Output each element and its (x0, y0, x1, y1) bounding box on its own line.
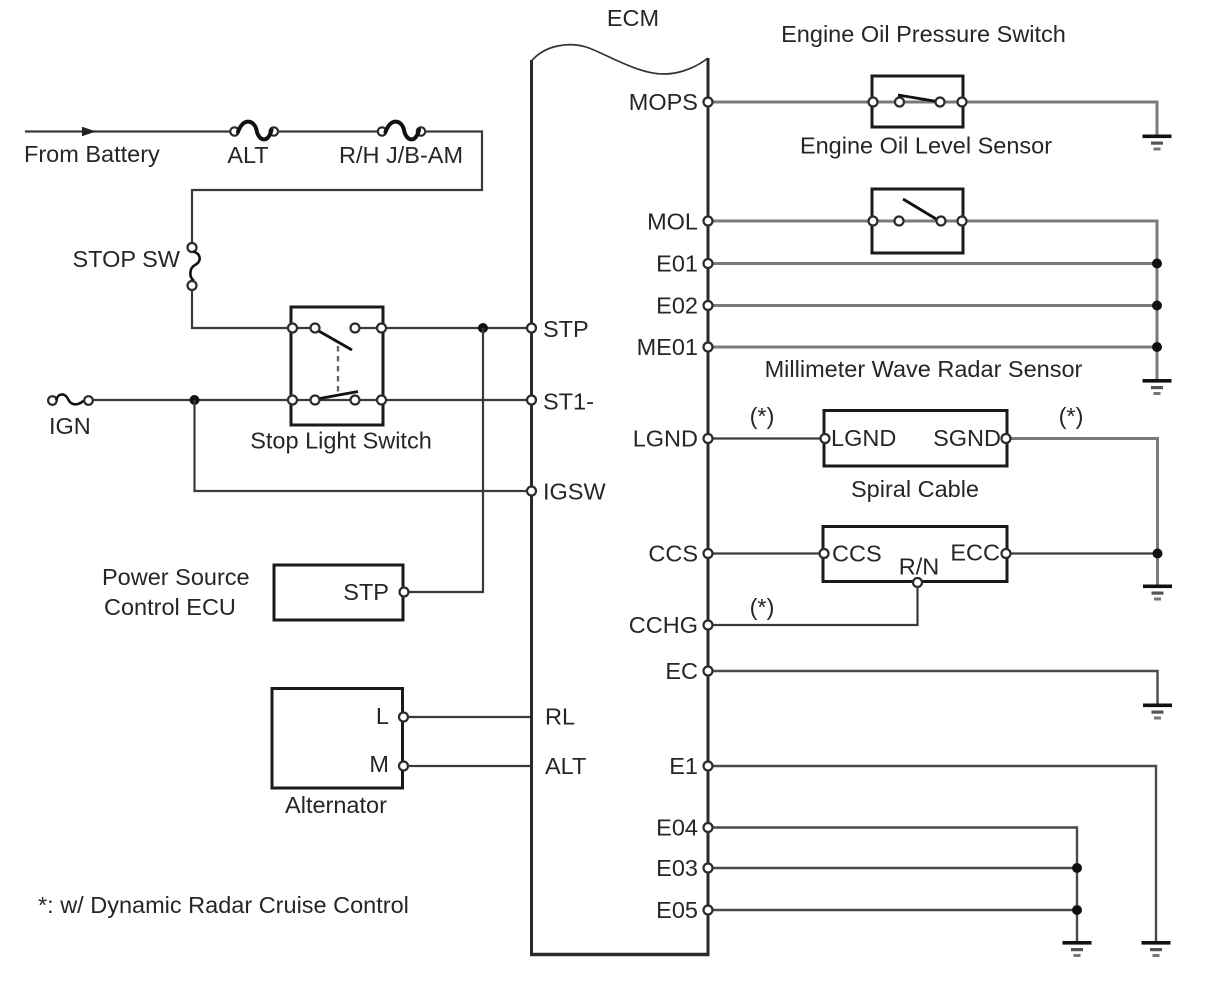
pin LGND (704, 434, 713, 443)
svg-text:L: L (376, 703, 389, 729)
wire M to ALT pin (408, 765, 530, 767)
svg-text:Alternator: Alternator (285, 792, 387, 818)
wire switch output to STP pin (383, 327, 527, 329)
wire E01 (712, 262, 1157, 265)
svg-text:ME01: ME01 (637, 334, 698, 360)
wire CCHG to R/N (712, 587, 918, 625)
svg-text:RL: RL (545, 704, 575, 730)
svg-text:E1: E1 (669, 753, 698, 779)
pin MOPS (704, 98, 713, 107)
pin E01 (704, 259, 713, 268)
pin IGSW (527, 487, 536, 496)
svg-text:E03: E03 (656, 855, 698, 881)
svg-text:M: M (369, 751, 389, 777)
svg-text:MOPS: MOPS (629, 89, 698, 115)
svg-text:LGND: LGND (633, 426, 698, 452)
svg-text:Engine Oil Pressure Switch: Engine Oil Pressure Switch (781, 21, 1066, 47)
ground E04 E03 E05 (1063, 941, 1092, 957)
svg-text:(*): (*) (1059, 403, 1084, 429)
wire EC to ground (712, 671, 1158, 704)
svg-text:MOL: MOL (647, 209, 698, 235)
pin E03 (704, 864, 713, 873)
switch Stop Light Switch (288, 307, 386, 425)
svg-text:R/H J/B-AM: R/H J/B-AM (339, 142, 463, 168)
svg-text:CCS: CCS (832, 541, 882, 567)
svg-text:E05: E05 (656, 897, 698, 923)
svg-text:E02: E02 (656, 293, 698, 319)
junction on STP wire (478, 323, 488, 333)
pin E1 (704, 762, 713, 771)
svg-text:ALT: ALT (227, 142, 268, 168)
wire E02 (712, 304, 1157, 307)
junction on IGN wire (190, 395, 200, 405)
wire E03 (712, 867, 1077, 869)
wire MOL to ground bus (712, 221, 1157, 379)
svg-text:LGND: LGND (831, 425, 896, 451)
pin E04 (704, 823, 713, 832)
ground EC (1143, 704, 1172, 720)
wire IGN junction to IGSW pin (195, 400, 528, 491)
wire between fuses (278, 130, 382, 132)
svg-text:IGSW: IGSW (543, 479, 606, 505)
block Power Source Control ECU (274, 565, 409, 620)
wire STOP SW to Stop Light Switch (192, 290, 291, 328)
svg-text:ECC: ECC (950, 540, 1000, 566)
pin ME01 (704, 343, 713, 352)
svg-text:IGN: IGN (49, 413, 91, 439)
ground SGND ECC (1143, 585, 1172, 601)
connector IGN (48, 394, 93, 404)
wire E05 (712, 909, 1077, 911)
ECM block outline (530, 45, 710, 955)
junction ME01 (1152, 342, 1162, 352)
junction E05 (1072, 905, 1082, 915)
svg-text:E01: E01 (656, 251, 698, 277)
svg-text:ALT: ALT (545, 753, 586, 779)
block Spiral Cable lower (820, 527, 1011, 588)
wire MOPS to ground (712, 102, 1157, 135)
ground E1 (1142, 941, 1171, 957)
block Spiral Cable upper (821, 411, 1011, 467)
svg-text:(*): (*) (750, 594, 775, 620)
pin MOL (704, 217, 713, 226)
junction E01 (1152, 259, 1162, 269)
svg-text:STP: STP (543, 316, 589, 342)
wire LGND (712, 437, 824, 439)
switch STOP SW (188, 243, 200, 290)
fusible link ALT (230, 122, 278, 140)
svg-text:Stop Light Switch: Stop Light Switch (250, 428, 432, 454)
svg-text:Spiral Cable: Spiral Cable (851, 476, 979, 502)
wire ME01 (712, 346, 1157, 349)
switch Engine Oil Level Sensor (869, 189, 967, 253)
wire fuse output down and across to STOP SW (192, 132, 482, 244)
svg-text:ECM: ECM (607, 5, 659, 31)
pin E05 (704, 906, 713, 915)
pin STP (527, 324, 536, 333)
pin ST1- (527, 396, 536, 405)
svg-text:CCS: CCS (648, 541, 698, 567)
svg-text:E04: E04 (656, 815, 698, 841)
wire STP junction down to Power Source Control ECU (408, 328, 483, 592)
svg-text:R/N: R/N (899, 554, 939, 580)
svg-text:(*): (*) (750, 403, 775, 429)
wire CCS (712, 552, 823, 554)
wire E04 to ground bus (712, 828, 1077, 942)
pin EC (704, 667, 713, 676)
wire L to RL pin (408, 716, 530, 718)
svg-text:Control ECU: Control ECU (104, 594, 236, 620)
arrow on battery wire (82, 127, 96, 137)
svg-text:SGND: SGND (933, 425, 1001, 451)
ground E01 E02 ME01 (1143, 379, 1172, 395)
svg-text:STOP SW: STOP SW (72, 246, 180, 272)
wire ECC to junction (1011, 552, 1158, 554)
pin CCHG (704, 621, 713, 630)
pin E02 (704, 301, 713, 310)
svg-text:*: w/ Dynamic Radar Cruise Con: *: w/ Dynamic Radar Cruise Control (38, 892, 409, 918)
svg-text:Millimeter Wave Radar Sensor: Millimeter Wave Radar Sensor (765, 356, 1083, 382)
fusible link R/H J/B-AM (378, 122, 425, 140)
wire SGND to junction (1011, 439, 1158, 585)
svg-text:Engine Oil Level Sensor: Engine Oil Level Sensor (800, 133, 1052, 159)
junction E03 (1072, 863, 1082, 873)
svg-text:EC: EC (665, 658, 698, 684)
junction E02 (1152, 301, 1162, 311)
svg-text:ST1-: ST1- (543, 389, 594, 415)
svg-text:STP: STP (343, 579, 389, 605)
ground MOPS (1143, 135, 1172, 151)
wire E1 to ground (712, 766, 1156, 941)
svg-text:Power Source: Power Source (102, 564, 250, 590)
pin CCS (704, 549, 713, 558)
wire IGN to ST1- through switch (93, 399, 528, 401)
svg-text:From Battery: From Battery (24, 141, 160, 167)
junction SGND ECC (1153, 549, 1163, 559)
switch Engine Oil Pressure Switch (869, 76, 967, 127)
svg-text:CCHG: CCHG (629, 612, 698, 638)
wire From Battery feed (25, 130, 234, 132)
block Alternator (272, 689, 408, 789)
